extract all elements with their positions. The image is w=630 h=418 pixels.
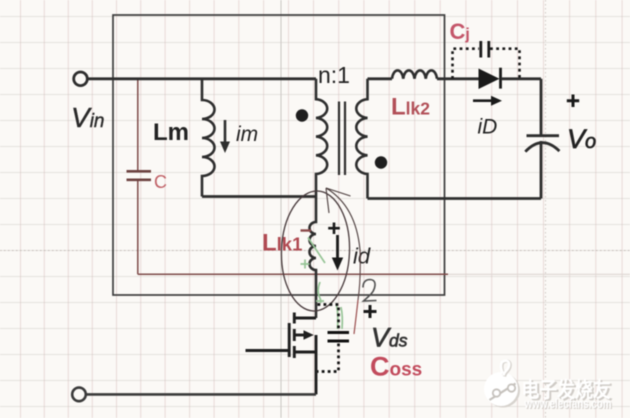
capacitor Co output	[540, 79, 543, 136]
wire: output return to secondary bottom	[368, 197, 542, 200]
transformer T1 secondary winding	[356, 79, 367, 199]
wire: bottom rail	[87, 393, 317, 396]
inductor Llk2	[392, 70, 437, 78]
wire: top rail from input terminal to primary	[88, 77, 316, 80]
body arrow head	[304, 330, 314, 340]
minus polarity mark	[301, 229, 312, 231]
annotation ellipse around Llk1	[279, 190, 351, 312]
faint vertical crease line	[280, 0, 282, 418]
green annotation marks	[301, 238, 343, 330]
transformer model boundary box	[113, 15, 445, 295]
gate bar	[288, 323, 291, 357]
right vertical source connection	[315, 335, 318, 394]
input terminal bottom	[72, 388, 86, 402]
capacitor C	[127, 171, 152, 180]
gate wire	[246, 349, 290, 352]
svg-text:n:1: n:1	[318, 62, 350, 88]
wire: diode to output	[501, 77, 541, 80]
inductor Llk1	[310, 197, 317, 319]
watermark logo	[484, 361, 520, 408]
input terminal top	[74, 72, 88, 86]
output plus polarity	[567, 95, 579, 108]
primary dot	[296, 109, 308, 121]
secondary dot	[375, 156, 387, 168]
svg-text:Lm: Lm	[153, 119, 189, 146]
iD current arrow	[473, 96, 502, 106]
source channel tick	[293, 346, 296, 358]
faint dotted horizontal artifact line	[0, 250, 630, 252]
transformer T1 primary winding	[316, 79, 327, 197]
capacitor C branch wire (dark red)	[138, 80, 448, 274]
transformer core	[339, 102, 345, 176]
source stub	[294, 351, 316, 354]
MOSFET Q1	[246, 313, 317, 395]
annotation arrow pointing at node	[326, 188, 360, 250]
wire: Lm bottom to primary bottom	[202, 195, 316, 198]
diode D	[479, 69, 500, 90]
capacitor Cj (dotted junction capacitance)	[453, 49, 520, 79]
wire: Llk2 to diode	[437, 77, 479, 80]
capacitor Coss (dotted)	[318, 305, 339, 372]
plus polarity mark	[328, 223, 340, 235]
svg-text:Llk2: Llk2	[391, 94, 430, 121]
id current arrow	[332, 235, 343, 271]
svg-text:C: C	[154, 172, 167, 192]
im current arrow	[220, 120, 230, 153]
svg-text:iD: iD	[478, 116, 498, 139]
svg-text:im: im	[236, 123, 258, 146]
inductor Lm	[202, 79, 215, 197]
drain channel tick	[293, 313, 296, 324]
Vds plus polarity	[364, 305, 377, 318]
body arrow line	[294, 334, 305, 337]
wire: secondary top to Llk2	[368, 77, 393, 80]
svg-text:id: id	[353, 244, 371, 269]
faint dotted vertical artifact line	[545, 0, 547, 418]
faint horizontal line right of box	[448, 273, 630, 275]
annotation digit 2	[363, 280, 377, 302]
drain stub	[294, 317, 316, 320]
svg-text:www.elecfans.com: www.elecfans.com	[524, 396, 612, 411]
mid channel tick	[293, 329, 296, 341]
